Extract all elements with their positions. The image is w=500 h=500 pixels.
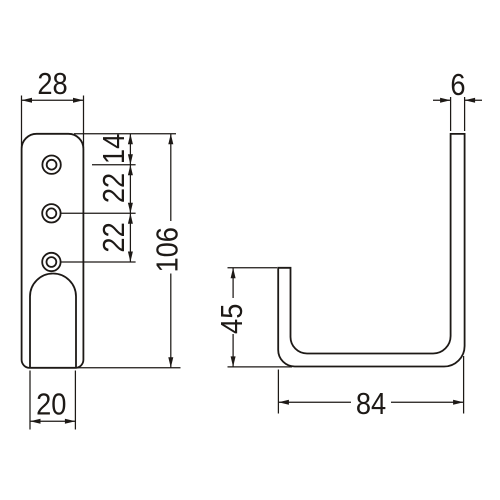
svg-text:84: 84 <box>356 387 386 421</box>
svg-text:45: 45 <box>215 304 249 334</box>
svg-text:22: 22 <box>97 173 131 203</box>
svg-text:106: 106 <box>151 227 185 273</box>
svg-text:14: 14 <box>97 134 131 164</box>
svg-text:6: 6 <box>450 68 465 102</box>
svg-text:20: 20 <box>36 388 66 422</box>
svg-text:28: 28 <box>37 67 67 101</box>
svg-text:22: 22 <box>97 222 131 252</box>
